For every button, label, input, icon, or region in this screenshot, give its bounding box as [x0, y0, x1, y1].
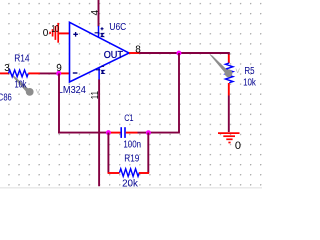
svg-text:0: 0: [43, 28, 49, 39]
svg-text:0: 0: [235, 140, 241, 152]
op-amp - input glyph: [73, 72, 78, 74]
wire: V- down to page bottom: [98, 80, 100, 187]
ground 0 at non-inverting input (rotated left): [50, 23, 69, 43]
op-amp U6C triangle: [70, 22, 130, 82]
svg-text:V: V: [36, 89, 41, 96]
wire: C1 left node down to R19: [107, 133, 109, 173]
op-amp + input glyph: [73, 32, 78, 37]
svg-text:OUT: OUT: [104, 50, 123, 61]
pin stub: V+ pin 4: [98, 26, 100, 37]
wire: input net from left edge to R14: [0, 72, 9, 74]
svg-text:R19: R19: [124, 154, 139, 165]
svg-text:4: 4: [90, 10, 101, 16]
ground 0 at R5 bottom: [218, 133, 240, 142]
junction node at pin 9: [56, 71, 61, 76]
wire: feedback from pin 9 node down: [58, 73, 60, 133]
wire: feedback horizontal to C1 right node: [148, 132, 180, 134]
pin stub: output pin 8: [129, 52, 140, 54]
svg-text:100n: 100n: [123, 139, 141, 150]
svg-text:R5: R5: [244, 66, 255, 77]
wire: output net to R5 corner: [139, 52, 229, 54]
wire: feedback horizontal to C1 left node: [58, 132, 108, 134]
svg-text:U6C: U6C: [109, 22, 126, 33]
resistor R5: [225, 55, 233, 96]
svg-text:C1: C1: [124, 113, 133, 124]
voltage probe marker at R14 left node: [9, 72, 34, 96]
pin stub: op-amp inverting input pin 9: [59, 72, 70, 74]
svg-text:V: V: [236, 68, 241, 75]
wire: V+ to top edge: [98, 0, 100, 27]
svg-text:R14: R14: [14, 53, 30, 64]
svg-text:10k: 10k: [15, 80, 28, 91]
resistor R14: [9, 70, 41, 77]
junction node C1 right: [146, 130, 151, 135]
wire: R5 down to ground: [228, 96, 230, 133]
svg-text:10: 10: [51, 24, 59, 35]
wire: feedback drop from output net: [178, 53, 180, 133]
pin stub: V- pin 11: [98, 68, 100, 81]
svg-text:LM324: LM324: [58, 85, 87, 96]
capacitor C1: [108, 127, 148, 138]
svg-text:20k: 20k: [122, 179, 139, 190]
wire: R14 to inverting input node: [40, 72, 59, 74]
wire: C1 right node down to R19: [147, 133, 149, 173]
V- pin marks: [96, 66, 104, 73]
svg-text:3: 3: [4, 63, 10, 74]
junction node on output net: [176, 51, 181, 56]
svg-text:10k: 10k: [243, 77, 257, 88]
voltage probe marker at R5: [209, 54, 232, 77]
svg-text:C86: C86: [0, 93, 12, 104]
V+ pin marks: [95, 27, 104, 36]
junction node C1 left: [106, 130, 111, 135]
wire: output corner down to R5: [228, 52, 230, 55]
page edge line: [0, 187, 262, 188]
resistor R19: [108, 169, 150, 177]
